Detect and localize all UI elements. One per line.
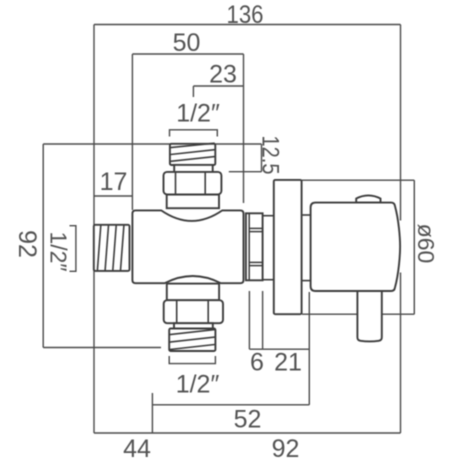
svg-text:50: 50 (173, 29, 201, 57)
svg-text:12.5: 12.5 (257, 136, 284, 175)
svg-text:6: 6 (250, 349, 264, 377)
svg-text:23: 23 (209, 61, 237, 89)
svg-text:1/2″: 1/2″ (176, 371, 220, 399)
svg-text:1/2″: 1/2″ (176, 100, 220, 128)
svg-text:136: 136 (227, 1, 264, 29)
svg-text:92: 92 (272, 435, 300, 463)
svg-text:52: 52 (234, 406, 262, 434)
svg-text:ø60: ø60 (413, 224, 439, 264)
svg-text:17: 17 (100, 168, 128, 196)
svg-text:92: 92 (13, 230, 41, 258)
svg-text:1/2″: 1/2″ (45, 232, 71, 272)
svg-text:44: 44 (123, 435, 151, 463)
svg-text:21: 21 (274, 349, 302, 377)
